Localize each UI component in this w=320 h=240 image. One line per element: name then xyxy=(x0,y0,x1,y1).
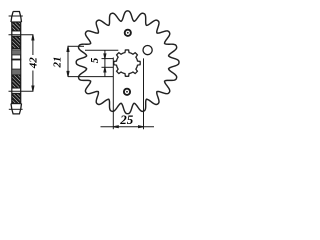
svg-text:42: 42 xyxy=(27,57,39,70)
svg-text:5: 5 xyxy=(89,57,101,63)
svg-text:21: 21 xyxy=(51,57,63,69)
svg-text:25: 25 xyxy=(119,112,134,127)
